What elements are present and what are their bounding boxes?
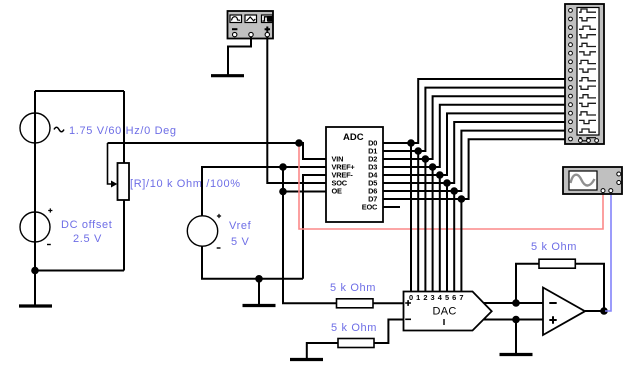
wire feedback right — [575, 264, 604, 311]
wire D2 bus — [383, 96, 565, 291]
svg-text:DAC: DAC — [433, 306, 457, 318]
wire FG common to ground — [228, 37, 251, 75]
wire D6 bus — [383, 131, 565, 292]
op DAC U2 — [404, 292, 492, 331]
node D4 junction — [436, 171, 444, 179]
wire wiper horizontal to VIN net — [108, 142, 300, 144]
wire feedback left — [516, 264, 539, 303]
function generator XFG — [228, 11, 274, 39]
ground under op-amp — [500, 353, 533, 356]
svg-text:1.75 V/60 Hz/0 Deg: 1.75 V/60 Hz/0 Deg — [69, 125, 177, 137]
svg-text:7: 7 — [459, 293, 463, 302]
wire VREF- pin — [303, 175, 326, 279]
Vref source V3 — [187, 214, 221, 248]
svg-text:EOC: EOC — [362, 203, 378, 212]
wire VIN jog — [299, 143, 326, 159]
node op-amp minus — [512, 299, 520, 307]
wire D3 bus — [383, 105, 565, 292]
svg-text:5 k Ohm: 5 k Ohm — [330, 282, 376, 294]
ground under Vref — [243, 304, 276, 307]
wire OE pin — [283, 191, 326, 193]
node Vref ground junction — [255, 275, 263, 283]
svg-text:2.5 V: 2.5 V — [73, 233, 102, 245]
wire EOC stub — [383, 206, 400, 208]
wire ground stub Vref — [258, 279, 260, 304]
node junction V2-ground — [31, 267, 39, 275]
label DC offset 2.5 V — [61, 219, 113, 245]
wire scope channel A red — [299, 143, 603, 229]
ground under FG — [211, 74, 244, 77]
label 1.75 V/60 Hz/0 Deg — [69, 125, 177, 137]
svg-text:1: 1 — [416, 293, 420, 302]
label 5 k Ohm R2 — [330, 282, 376, 294]
potentiometer R1 body — [118, 163, 130, 200]
wire D5 bus — [383, 122, 565, 292]
wire DAC out lower — [484, 319, 543, 321]
label Vref 5 V — [229, 220, 252, 248]
op-amp U3 — [543, 288, 585, 336]
svg-text:5 V: 5 V — [231, 236, 249, 248]
svg-text:DC offset: DC offset — [61, 219, 113, 231]
op ADC U1 — [326, 127, 383, 222]
resistor R4 body — [539, 259, 575, 268]
svg-text:3: 3 — [431, 293, 435, 302]
wire pot bottom vertical — [123, 200, 125, 271]
svg-text:ADC: ADC — [343, 132, 364, 143]
resistor R2 body — [337, 299, 374, 308]
wire top loop V1 — [35, 90, 124, 92]
ground under R3 — [290, 358, 323, 361]
wire R3 left to ground — [307, 343, 338, 358]
node op-amp plus — [512, 316, 520, 324]
ground left — [19, 304, 52, 307]
wire D4 bus — [383, 113, 565, 291]
wire Vref+ to VREF+ pin — [202, 167, 326, 216]
node D7 junction — [458, 195, 466, 203]
wire R2 to DAC plus — [373, 302, 404, 304]
wire D7 bus — [383, 139, 565, 291]
node wiper-scope junction — [295, 139, 303, 147]
wire FG plus to SOC — [267, 37, 326, 183]
wire left vertical chain — [34, 91, 36, 305]
label 5 k Ohm R3 — [331, 322, 377, 334]
wire scope channel B blue — [605, 193, 611, 311]
wire 5V rail down to OE and DAC plus — [283, 167, 337, 303]
wire wiper drop + arrow — [108, 143, 118, 188]
label 5 k Ohm R4 — [531, 241, 577, 253]
node D2 junction — [422, 155, 430, 163]
wire op-amp output — [585, 310, 605, 312]
svg-text:6: 6 — [452, 293, 456, 302]
wire Vref minus bottom — [202, 246, 303, 279]
svg-text:OE: OE — [332, 187, 343, 196]
svg-text:2: 2 — [423, 293, 427, 302]
wire pot top vertical — [123, 91, 125, 163]
wire bottom left — [35, 270, 124, 272]
node D3 junction — [429, 163, 437, 171]
wire R3 to DAC minus — [374, 320, 404, 344]
DC source V2 — [20, 208, 52, 244]
node VREF+ tap — [279, 163, 287, 171]
wire plus input ground — [515, 320, 517, 354]
svg-text:0: 0 — [409, 293, 413, 302]
wire D1 bus — [383, 88, 565, 292]
node D5 junction — [443, 179, 451, 187]
AC source V1 — [20, 113, 64, 143]
svg-text:5: 5 — [445, 293, 449, 302]
resistor R3 body — [338, 339, 374, 348]
oscilloscope XSC — [563, 167, 622, 194]
wire DAC out upper — [484, 302, 544, 304]
svg-text:Vref: Vref — [229, 220, 252, 232]
svg-text:[R]/10 k Ohm /100%: [R]/10 k Ohm /100% — [130, 178, 241, 190]
wire D0 bus — [383, 79, 565, 292]
node D0 junction — [407, 139, 415, 147]
node D6 junction — [450, 187, 458, 195]
node D1 junction — [414, 147, 422, 155]
node output junction — [600, 307, 608, 315]
svg-text:5 k Ohm: 5 k Ohm — [531, 241, 577, 253]
svg-text:5 k Ohm: 5 k Ohm — [331, 322, 377, 334]
label [R]/10 k Ohm /100% — [130, 178, 241, 190]
node OE tap — [279, 188, 287, 196]
logic analyzer XLA — [565, 4, 604, 144]
